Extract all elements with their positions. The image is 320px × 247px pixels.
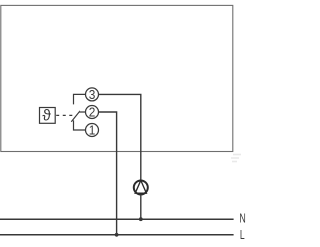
enclosure box (device outline) xyxy=(1,5,233,151)
thermostat sensor box xyxy=(40,108,56,124)
pump triangle xyxy=(135,180,146,193)
svg-text:ϑ: ϑ xyxy=(42,107,51,124)
junction dot on L line xyxy=(115,233,119,237)
terminal 2 xyxy=(86,106,99,119)
junction dot on N line xyxy=(139,217,143,221)
svg-text:N: N xyxy=(239,211,245,226)
svg-text:L: L xyxy=(240,227,245,242)
terminal 3 xyxy=(86,88,99,101)
faint erased-watermark smudge below enclosure corner xyxy=(231,155,241,162)
switch fixed contact 3 (wire from terminal 3 and open stub) xyxy=(74,94,86,104)
pump (circle) xyxy=(134,181,148,195)
switch movable arm (closed to contact 2) xyxy=(71,112,85,122)
N line xyxy=(0,218,234,220)
dashed actuator link xyxy=(56,114,76,116)
L line xyxy=(0,234,234,236)
switch common leg to terminal 1 xyxy=(74,120,86,130)
wire pump to N line xyxy=(140,195,142,220)
svg-text:2: 2 xyxy=(89,105,96,120)
wire terminal 2 down to L line xyxy=(99,112,117,235)
wire terminal 3 to pump xyxy=(99,94,141,180)
terminal 1 xyxy=(86,124,99,137)
svg-text:1: 1 xyxy=(89,123,96,138)
svg-text:3: 3 xyxy=(89,87,96,102)
